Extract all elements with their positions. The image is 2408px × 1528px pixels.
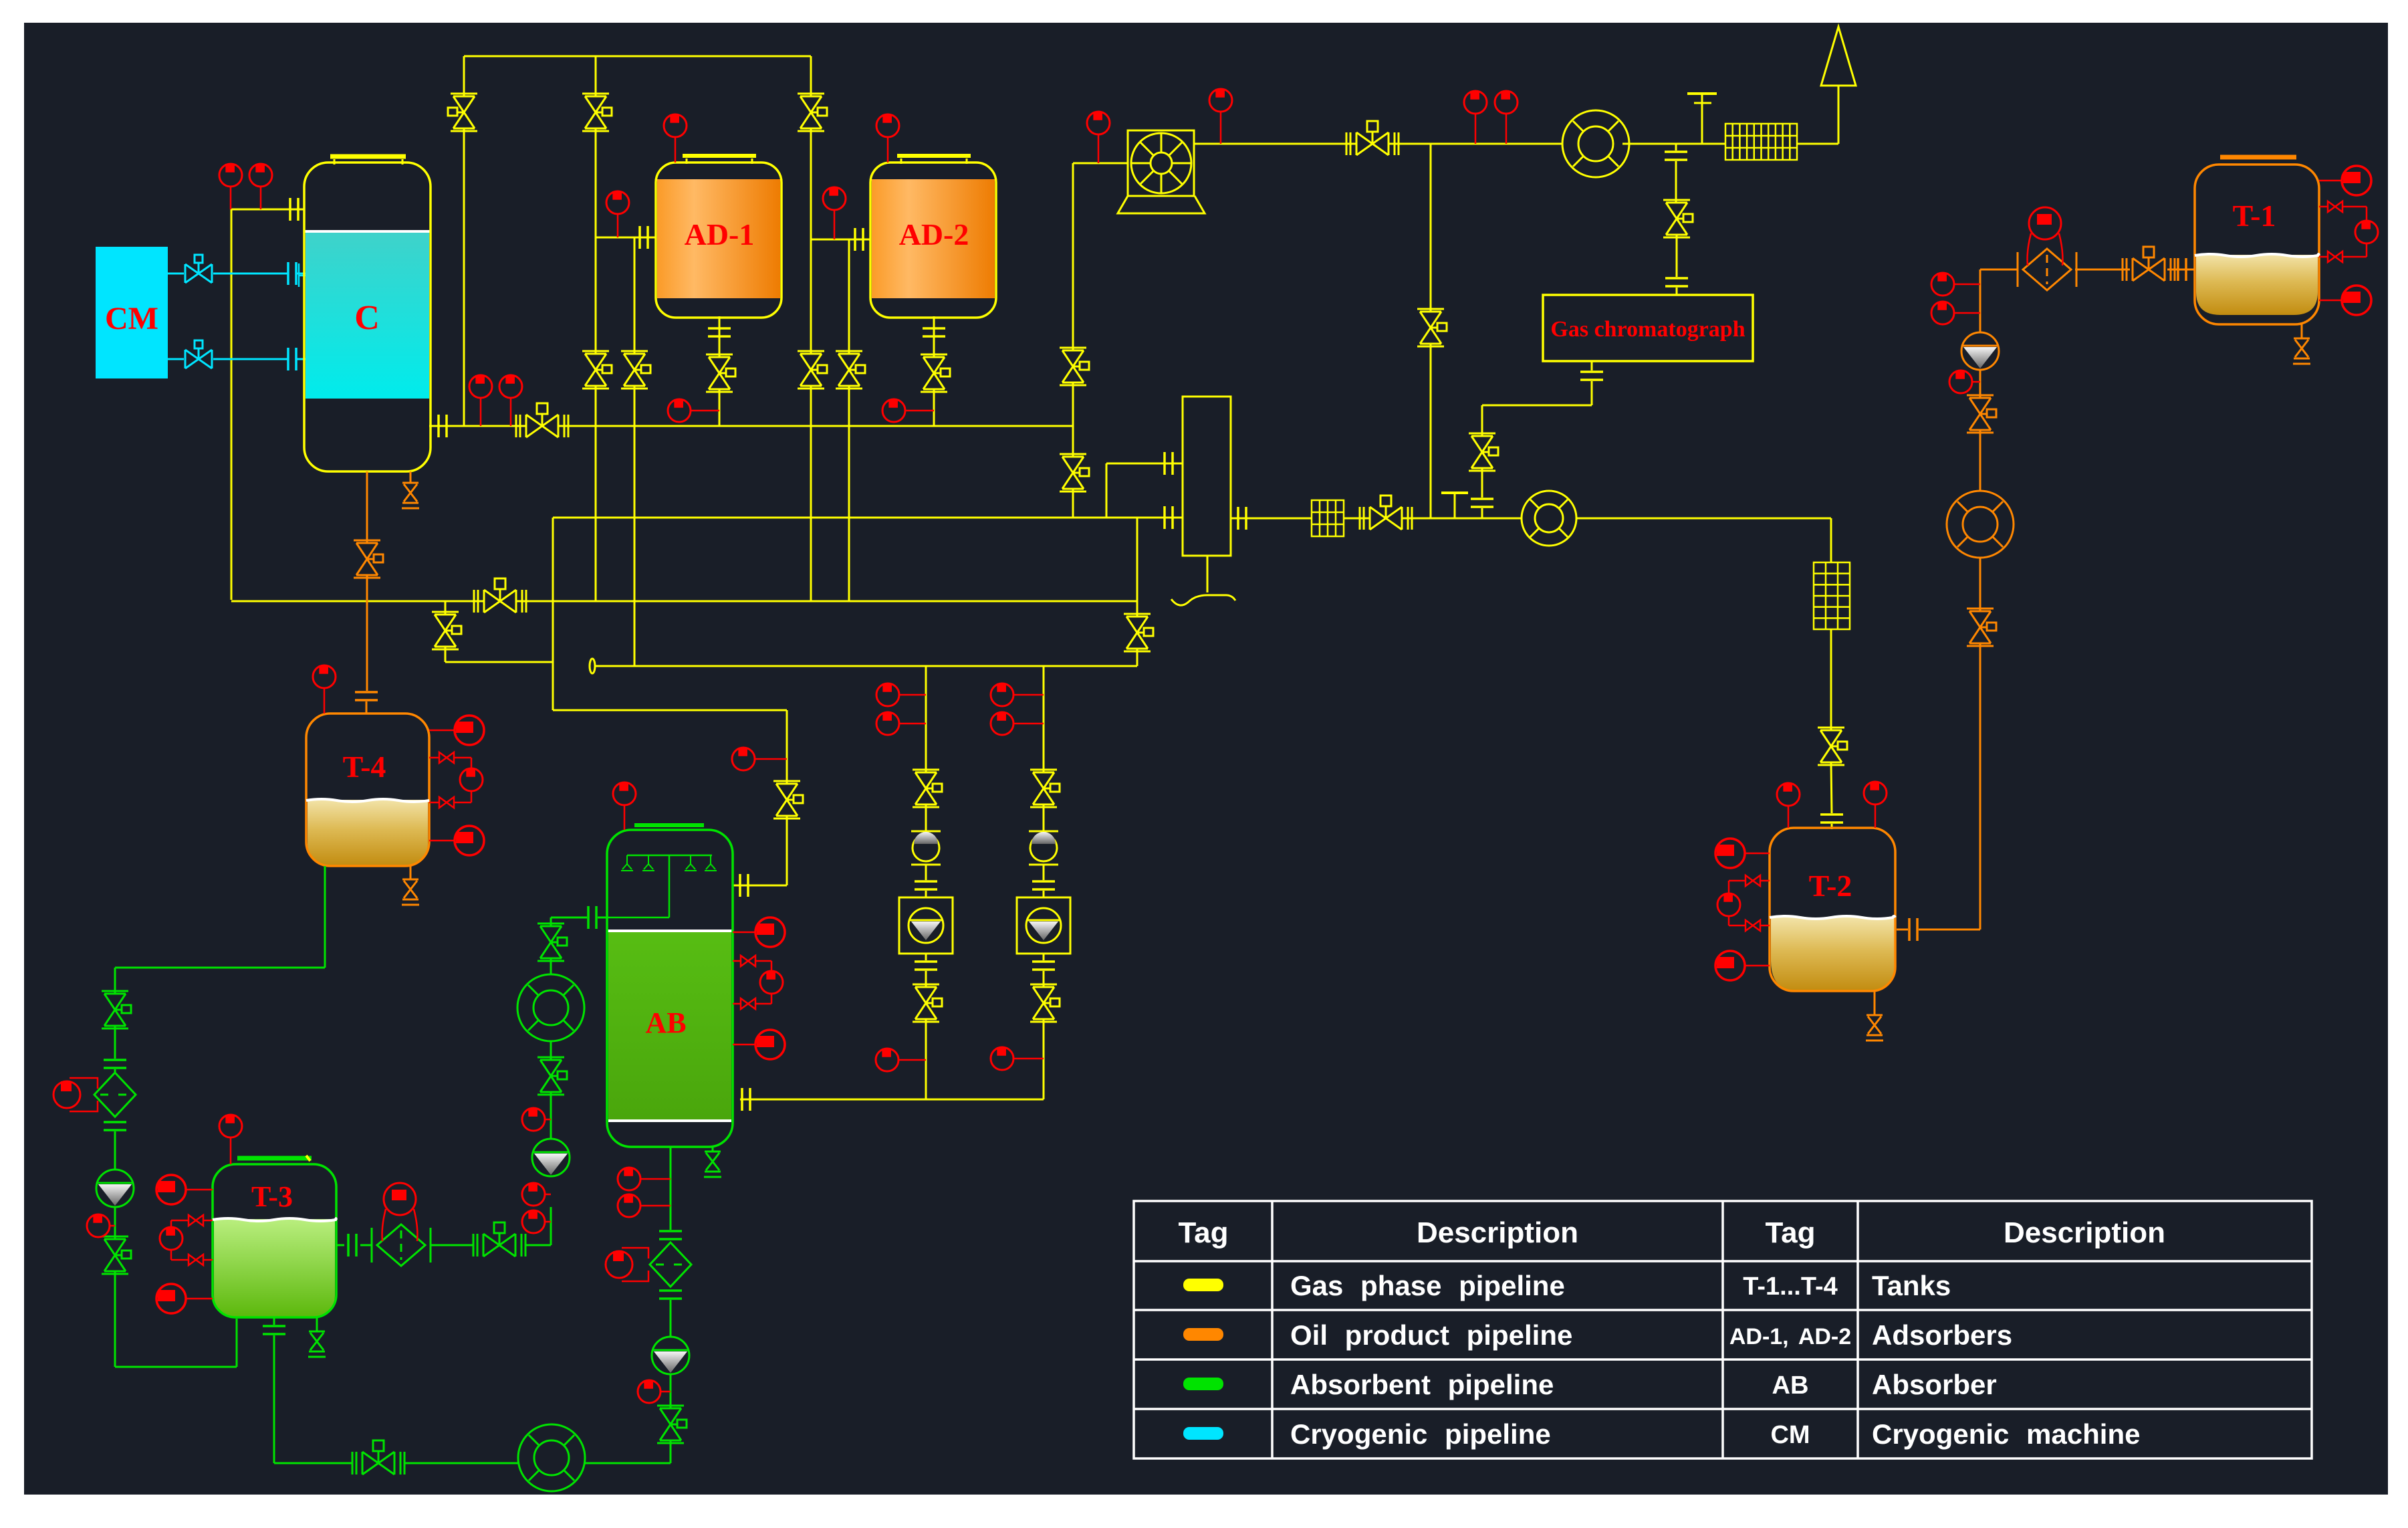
svg-text:Description: Description <box>2004 1216 2165 1249</box>
svg-text:C: C <box>354 299 380 337</box>
svg-text:Description: Description <box>1417 1216 1578 1249</box>
svg-text:AD-2: AD-2 <box>899 217 969 251</box>
svg-text:AD-1, AD-2: AD-1, AD-2 <box>1729 1324 1851 1349</box>
svg-text:Gas chromatograph: Gas chromatograph <box>1550 317 1745 342</box>
svg-text:Cryogenic machine: Cryogenic machine <box>1872 1418 2140 1450</box>
svg-text:Cryogenic pipeline: Cryogenic pipeline <box>1290 1418 1551 1450</box>
svg-text:T-2: T-2 <box>1809 869 1852 903</box>
svg-text:Tag: Tag <box>1766 1216 1816 1249</box>
svg-text:Oil product pipeline: Oil product pipeline <box>1290 1319 1572 1351</box>
svg-text:Gas phase pipeline: Gas phase pipeline <box>1290 1270 1565 1301</box>
svg-text:AB: AB <box>645 1006 686 1039</box>
svg-text:Tanks: Tanks <box>1872 1270 1951 1301</box>
svg-text:T-3: T-3 <box>251 1180 293 1213</box>
svg-text:AD-1: AD-1 <box>685 217 755 251</box>
svg-text:CM: CM <box>1770 1421 1810 1449</box>
svg-text:Absorbent pipeline: Absorbent pipeline <box>1290 1369 1554 1400</box>
svg-text:CM: CM <box>105 301 158 336</box>
svg-text:T-4: T-4 <box>343 750 386 784</box>
svg-text:T-1: T-1 <box>2233 199 2276 233</box>
svg-text:AB: AB <box>1772 1372 1809 1400</box>
svg-text:T-1...T-4: T-1...T-4 <box>1743 1273 1837 1301</box>
svg-text:Absorber: Absorber <box>1872 1369 1997 1400</box>
svg-text:Adsorbers: Adsorbers <box>1872 1319 2012 1351</box>
svg-text:Tag: Tag <box>1179 1216 1229 1249</box>
